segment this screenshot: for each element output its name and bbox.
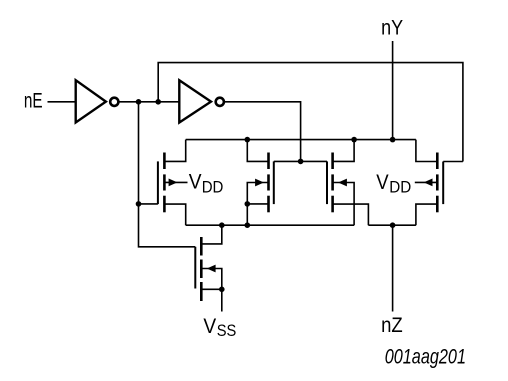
wire T3 source stub to bottom rail right	[333, 204, 369, 225]
wire T1 drain stub to top rail	[164, 140, 185, 162]
wire T1 source stub to bottom rail	[164, 204, 185, 225]
wire nY lead	[392, 41, 394, 140]
svg-text:SS: SS	[217, 321, 237, 340]
wire left control drop (U1 output down to T5 gate)	[139, 102, 196, 247]
node T5 source/bulk junction dot	[219, 287, 225, 293]
inverter U1 output bubble	[110, 98, 118, 106]
svg-text:DD: DD	[389, 178, 411, 197]
arrowhead T4 bulk (p-channel, pointing away)	[424, 179, 433, 187]
node T2 drain dot on top rail	[245, 137, 251, 143]
node T5 drain dot on bottom rail	[219, 222, 225, 228]
wire U2 output down to gate bus	[224, 102, 300, 162]
svg-text:nZ: nZ	[381, 313, 403, 337]
wire top rail	[186, 139, 416, 141]
wire T3 gate lead to node C	[301, 160, 327, 162]
inverter U2 output bubble	[216, 98, 224, 106]
node nZ junction dot on bottom rail	[390, 222, 396, 228]
wire T4 drain stub from top rail	[416, 140, 437, 162]
wire VSS lead	[221, 289, 223, 311]
wire T2 source drop to bottom rail	[246, 204, 248, 225]
transistor T2 channel segments	[267, 153, 270, 213]
wire nZ lead	[392, 225, 394, 311]
transistor T3 channel segments	[331, 153, 334, 213]
inverter U2	[179, 80, 211, 122]
arrowhead T5 bulk (n-channel, pointing in)	[207, 265, 216, 273]
wire T3 bulk lead down to bottom rail left	[333, 183, 355, 226]
wire T4 bulk lead to VDD	[415, 181, 438, 183]
transistor T1 channel segments	[163, 153, 166, 213]
wire T4 source stub to bottom rail	[416, 204, 437, 225]
node T2 source/bulk junction dot	[245, 201, 251, 207]
wire T1 bulk lead to VDD	[164, 181, 187, 183]
wire U1 output to U2 input	[119, 101, 179, 103]
wire bottom rail left segment	[186, 224, 354, 226]
wire T3 drain stub from top rail	[333, 140, 355, 162]
node T3 drain dot on top rail	[351, 137, 357, 143]
svg-text:DD: DD	[202, 178, 224, 197]
node nY junction dot on top rail	[390, 137, 396, 143]
wire T5 source stub	[201, 288, 222, 290]
wire top feedback rail (node B up, across, down right side)	[158, 63, 463, 162]
wire T2 drain stub from top rail	[247, 140, 268, 162]
wire nE input lead	[48, 101, 76, 103]
wire T2 bulk lead	[247, 183, 268, 204]
wire T5 drain stub up to bottom rail	[201, 225, 222, 244]
wire T4 gate lead	[443, 161, 463, 163]
svg-text:V: V	[189, 170, 202, 194]
transistor T3 gate bar	[326, 161, 328, 204]
arrowhead T2 bulk (n-channel, pointing in)	[255, 179, 264, 187]
node B junction dot (to top feedback rail)	[155, 99, 161, 105]
transistor T4 gate bar	[442, 162, 444, 205]
svg-text:001aag201: 001aag201	[385, 345, 466, 368]
svg-text:V: V	[203, 314, 216, 338]
transistor T4 channel segments	[436, 153, 439, 213]
node T2 source dot on bottom rail	[245, 222, 251, 228]
arrowhead T1 bulk (p-channel, pointing away)	[169, 179, 178, 187]
node C junction dot (gate bus)	[298, 159, 304, 165]
wire T1 gate lead	[139, 203, 158, 205]
node A junction dot (U1 output to T1/T5 gate drop)	[136, 99, 142, 105]
node D junction dot (T1 gate tap)	[136, 201, 142, 207]
transistor T5 channel segments	[200, 237, 203, 301]
svg-text:nE: nE	[24, 89, 43, 113]
transistor T2 gate bar	[273, 161, 275, 204]
wire T2 gate lead to node C	[274, 160, 301, 162]
transistor T1 gate bar	[157, 161, 159, 204]
wire T2 source stub	[247, 203, 268, 205]
svg-text:V: V	[376, 170, 389, 194]
wire bottom rail right segment	[368, 224, 416, 226]
transistor T5 gate bar	[194, 247, 196, 289]
svg-text:nY: nY	[381, 16, 403, 40]
arrowhead T3 bulk (n-channel, pointing in)	[338, 179, 347, 187]
wire T5 bulk lead down to source	[201, 269, 222, 290]
inverter U1	[76, 80, 106, 122]
